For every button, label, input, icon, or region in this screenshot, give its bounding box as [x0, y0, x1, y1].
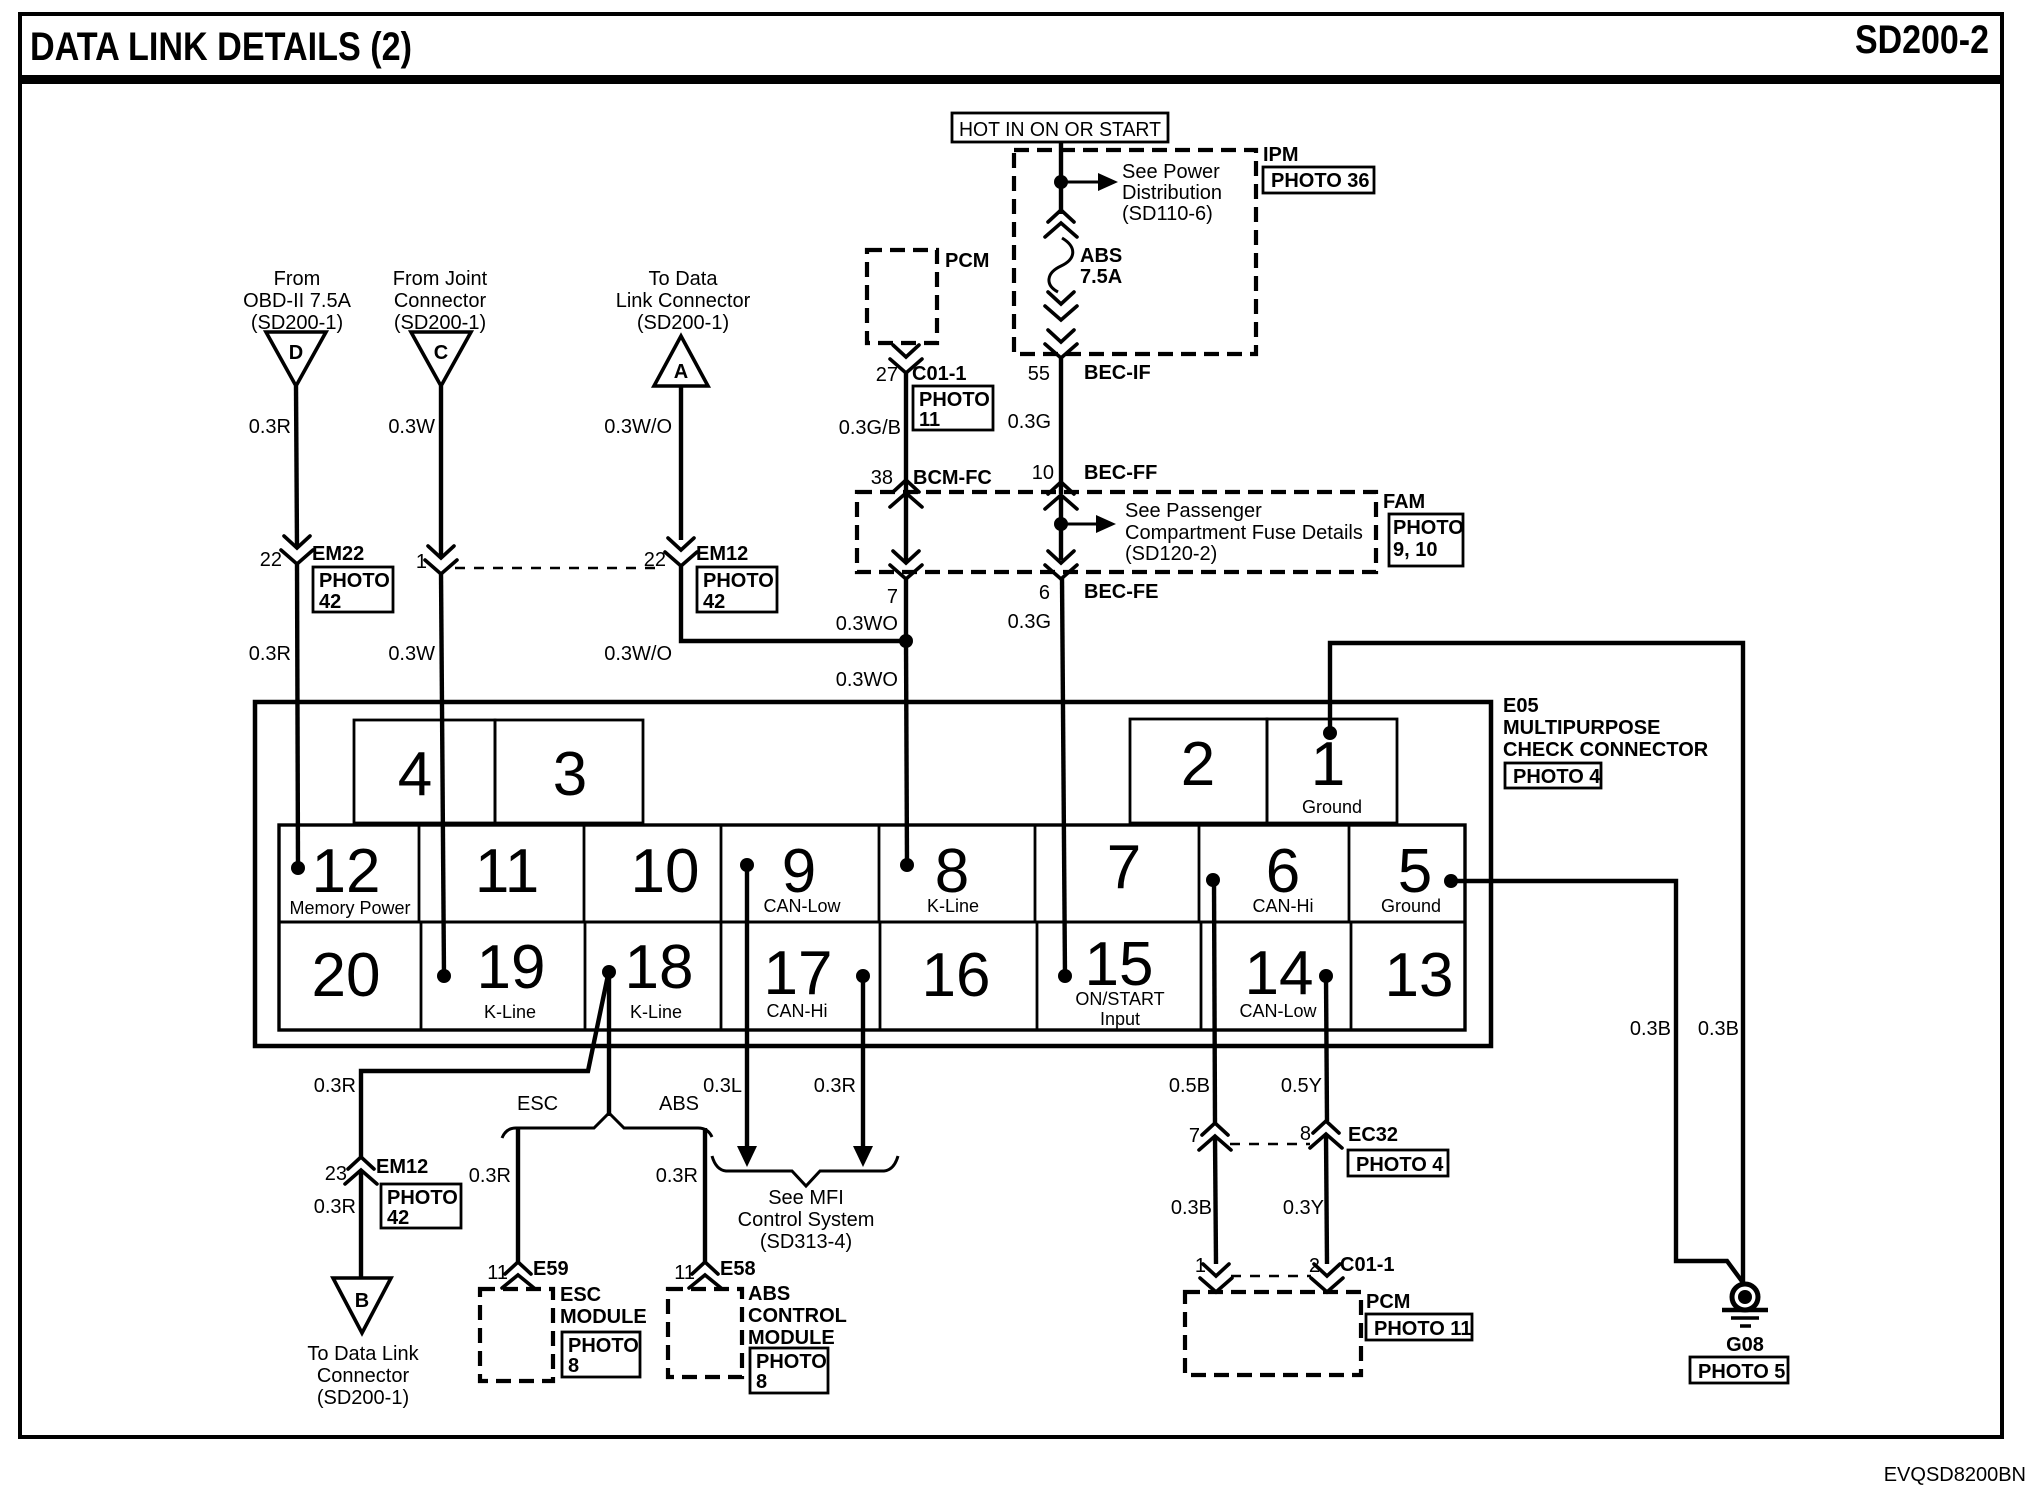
arrow to See Power Distribution — [1061, 173, 1118, 191]
svg-text:11: 11 — [919, 409, 940, 431]
label To Data Link Connector (SD200-1) — [616, 268, 751, 334]
svg-text:ON/START: ON/START — [1075, 989, 1164, 1009]
label From OBD-II 7.5A (SD200-1) — [243, 268, 351, 334]
wire through FAM — [904, 494, 908, 563]
svg-text:0.3B: 0.3B — [1630, 1018, 1671, 1040]
junction dot FAM — [1054, 517, 1068, 531]
grid dividers row 2 — [421, 922, 1351, 1030]
svg-text:K-Line: K-Line — [927, 896, 979, 916]
wire C01-1 to BCM-FC — [904, 371, 908, 492]
svg-text:Ground: Ground — [1381, 896, 1441, 916]
svg-text:C: C — [434, 342, 448, 364]
svg-text:ABS: ABS — [659, 1093, 699, 1115]
svg-text:0.3R: 0.3R — [249, 643, 291, 665]
svg-text:Link Connector: Link Connector — [616, 290, 751, 312]
wire ESC branch — [516, 1128, 520, 1262]
svg-text:To Data: To Data — [649, 268, 719, 290]
connector E58 pin 11 — [674, 1258, 755, 1288]
svg-text:0.3R: 0.3R — [814, 1075, 856, 1097]
svg-text:0.3Y: 0.3Y — [1283, 1197, 1324, 1219]
ESC MODULE dashed box E59 — [480, 1289, 553, 1381]
svg-text:16: 16 — [922, 941, 991, 1010]
svg-text:0.3WO: 0.3WO — [836, 613, 898, 635]
svg-text:PHOTO 5: PHOTO 5 — [1698, 1361, 1785, 1383]
svg-text:12: 12 — [312, 837, 381, 906]
svg-text:PCM: PCM — [1366, 1291, 1410, 1313]
dashed link C to EM12 — [455, 567, 662, 570]
pin dot 18 — [602, 965, 616, 979]
FAM dashed box — [857, 492, 1376, 572]
fuse top terminal — [1045, 210, 1077, 237]
svg-text:42: 42 — [703, 591, 725, 613]
svg-text:See Power: See Power — [1122, 161, 1220, 183]
svg-text:K-Line: K-Line — [484, 1002, 536, 1022]
connector BEC-IF pin 55 — [1028, 330, 1151, 385]
photo box PHOTO 8 (E59) — [562, 1332, 640, 1377]
svg-text:Memory Power: Memory Power — [289, 898, 410, 918]
svg-text:0.5Y: 0.5Y — [1281, 1075, 1322, 1097]
arrow to See Passenger — [1061, 515, 1116, 533]
connector C01-1 pin 2 — [1309, 1254, 1395, 1292]
photo box PHOTO 11 — [913, 386, 993, 431]
svg-text:0.3G: 0.3G — [1008, 411, 1051, 433]
svg-text:OBD-II 7.5A: OBD-II 7.5A — [243, 290, 351, 312]
label To Data Link Connector (SD200-1) — [307, 1343, 419, 1409]
label E05 MULTIPURPOSE CHECK CONNECTOR — [1503, 695, 1709, 761]
svg-text:7: 7 — [1189, 1125, 1200, 1147]
brace See MFI — [712, 1156, 898, 1186]
svg-text:13: 13 — [1385, 941, 1454, 1010]
svg-text:From: From — [274, 268, 321, 290]
svg-text:19: 19 — [477, 933, 546, 1002]
label ESC MODULE — [560, 1284, 647, 1328]
svg-text:Connector: Connector — [394, 290, 487, 312]
svg-text:IPM: IPM — [1263, 144, 1299, 166]
svg-text:FAM: FAM — [1383, 491, 1425, 513]
svg-text:7: 7 — [887, 586, 898, 608]
inner grid box — [279, 825, 1465, 1030]
wire A to EM12 — [679, 386, 683, 540]
svg-text:EM12: EM12 — [376, 1156, 428, 1178]
svg-text:DATA LINK DETAILS (2): DATA LINK DETAILS (2) — [30, 25, 412, 69]
wire ABS branch — [703, 1128, 707, 1262]
svg-text:9, 10: 9, 10 — [1393, 539, 1437, 561]
pin dot 6 — [1206, 873, 1220, 887]
svg-text:2: 2 — [1309, 1255, 1320, 1277]
svg-text:22: 22 — [260, 549, 282, 571]
photo box PHOTO 42 (EM12) — [697, 567, 777, 613]
connector BEC-FE pin 6 — [1039, 551, 1159, 604]
connector triangle C — [411, 332, 471, 386]
photo box PHOTO 4 (E05) — [1505, 763, 1601, 788]
note See Power Distribution (SD110-6) — [1122, 161, 1222, 225]
wire C to joint — [439, 386, 443, 558]
svg-text:PHOTO: PHOTO — [703, 570, 774, 592]
svg-text:BEC-FF: BEC-FF — [1084, 462, 1157, 484]
connector triangle B — [333, 1278, 391, 1333]
svg-text:42: 42 — [319, 591, 341, 613]
svg-text:8: 8 — [1300, 1123, 1311, 1145]
svg-text:14: 14 — [1245, 939, 1314, 1008]
svg-text:MULTIPURPOSE: MULTIPURPOSE — [1503, 717, 1660, 739]
svg-text:E59: E59 — [533, 1258, 569, 1280]
svg-text:ABS: ABS — [748, 1283, 790, 1305]
svg-text:CAN-Hi: CAN-Hi — [1253, 896, 1314, 916]
wire pin 17 CAN-Hi down — [861, 976, 865, 1150]
svg-text:(SD120-2): (SD120-2) — [1125, 543, 1217, 565]
wire pin 6 down — [1214, 880, 1215, 1123]
junction dot IPM — [1054, 175, 1068, 189]
photo box PHOTO 42 (EM12 23) — [381, 1184, 461, 1229]
connector EM12 pin 23 — [325, 1156, 429, 1185]
label ON/START Input (pin 15) — [1075, 989, 1164, 1029]
svg-text:C01-1: C01-1 — [912, 363, 966, 385]
connector triangle A — [654, 336, 708, 386]
svg-text:See MFI: See MFI — [768, 1187, 844, 1209]
svg-text:SD200-2: SD200-2 — [1855, 18, 1989, 62]
ABS CONTROL MODULE dashed box E58 — [668, 1289, 742, 1377]
svg-text:0.3WO: 0.3WO — [836, 669, 898, 691]
dashed link EC32 — [1230, 1143, 1310, 1146]
photo box PHOTO 42 (EM22) — [313, 567, 393, 613]
svg-text:C01-1: C01-1 — [1340, 1254, 1394, 1276]
svg-text:D: D — [289, 342, 303, 364]
svg-text:0.3R: 0.3R — [469, 1165, 511, 1187]
svg-text:7.5A: 7.5A — [1080, 266, 1122, 288]
wire pin 9 CAN-Low down — [745, 865, 749, 1150]
svg-text:1: 1 — [1311, 730, 1345, 799]
svg-text:0.3B: 0.3B — [1698, 1018, 1739, 1040]
photo box PHOTO 11 (PCM) — [1366, 1314, 1472, 1340]
pin dot 14 — [1319, 969, 1333, 983]
photo box PHOTO 5 (G08) — [1690, 1357, 1788, 1383]
svg-text:G08: G08 — [1726, 1334, 1764, 1356]
svg-text:11: 11 — [475, 837, 539, 906]
PCM dashed box (bottom) — [1185, 1292, 1361, 1375]
svg-text:10: 10 — [631, 837, 700, 906]
svg-text:0.3G: 0.3G — [1008, 611, 1051, 633]
fuse bottom terminal — [1045, 292, 1077, 320]
cavity box 4 — [354, 720, 495, 823]
photo box PHOTO 36 — [1263, 167, 1374, 193]
fuse label ABS 7.5A — [1080, 245, 1122, 288]
svg-text:3: 3 — [553, 740, 587, 809]
wire EC32-8 down — [1326, 1135, 1327, 1264]
svg-text:0.5B: 0.5B — [1169, 1075, 1210, 1097]
svg-text:1: 1 — [416, 551, 427, 573]
pin dot 19 — [437, 969, 451, 983]
svg-text:Connector: Connector — [317, 1365, 410, 1387]
svg-text:PHOTO 4: PHOTO 4 — [1513, 766, 1601, 788]
svg-text:22: 22 — [644, 549, 666, 571]
fuse ABS 7.5A body — [1049, 238, 1073, 292]
svg-text:0.3R: 0.3R — [656, 1165, 698, 1187]
wire junction to pin 8 — [906, 641, 907, 865]
photo box PHOTO 8 (E58) — [750, 1348, 828, 1393]
grid row divider — [279, 921, 1465, 924]
pin dot 17 — [856, 969, 870, 983]
svg-text:PHOTO: PHOTO — [1393, 517, 1464, 539]
connector EM12 pin 22 — [644, 538, 749, 571]
connector C01-1 pin 27 — [876, 345, 967, 386]
pin dot 5 — [1444, 874, 1458, 888]
cavity box 3 — [495, 720, 643, 823]
svg-text:11: 11 — [674, 1262, 695, 1284]
wire EM12 to junction — [681, 564, 906, 641]
svg-text:0.3R: 0.3R — [249, 416, 291, 438]
connector pin 1 — [416, 546, 457, 574]
connector BCM-FC pin 38 — [871, 467, 992, 507]
svg-text:CAN-Hi: CAN-Hi — [767, 1001, 828, 1021]
pin dot 9 — [740, 858, 754, 872]
svg-text:BEC-IF: BEC-IF — [1084, 362, 1151, 384]
svg-text:Ground: Ground — [1302, 797, 1362, 817]
svg-text:CONTROL: CONTROL — [748, 1305, 847, 1327]
svg-text:PCM: PCM — [945, 250, 989, 272]
junction dot EM12/BCM — [899, 634, 913, 648]
box HOT IN ON OR START — [952, 113, 1168, 142]
svg-text:38: 38 — [871, 467, 893, 489]
svg-text:PHOTO: PHOTO — [319, 570, 390, 592]
svg-text:0.3L: 0.3L — [703, 1075, 742, 1097]
svg-text:To Data Link: To Data Link — [307, 1343, 419, 1365]
svg-text:8: 8 — [756, 1371, 767, 1393]
svg-text:20: 20 — [312, 941, 381, 1010]
svg-text:(SD200-1): (SD200-1) — [317, 1387, 409, 1409]
svg-text:EVQSD8200BN: EVQSD8200BN — [1884, 1464, 2026, 1486]
E05 outer box — [255, 702, 1491, 1046]
wire pin 1 ground up and right — [1330, 643, 1743, 1283]
svg-text:8: 8 — [568, 1355, 579, 1377]
grid dividers row 1 — [419, 825, 1349, 922]
connector EC32 pin 7 — [1189, 1123, 1231, 1150]
svg-text:Control System: Control System — [738, 1209, 875, 1231]
svg-text:18: 18 — [625, 933, 694, 1002]
svg-text:BEC-FE: BEC-FE — [1084, 581, 1158, 603]
svg-text:0.3R: 0.3R — [314, 1196, 356, 1218]
svg-text:4: 4 — [398, 740, 432, 809]
note See MFI Control System (SD313-4) — [738, 1187, 875, 1253]
svg-text:PHOTO: PHOTO — [919, 389, 990, 411]
wire BEC-FE to pin 15 — [1062, 577, 1065, 976]
svg-text:Distribution: Distribution — [1122, 182, 1222, 204]
svg-text:2: 2 — [1181, 730, 1215, 799]
svg-text:PHOTO 4: PHOTO 4 — [1356, 1154, 1444, 1176]
wire HOT to junction — [1059, 141, 1063, 214]
svg-text:PHOTO: PHOTO — [568, 1335, 639, 1357]
svg-text:A: A — [674, 361, 688, 383]
wire BEC-IF to BEC-FF — [1059, 356, 1063, 494]
wire pin 14 down — [1326, 976, 1327, 1121]
svg-text:0.3R: 0.3R — [314, 1075, 356, 1097]
svg-text:(SD313-4): (SD313-4) — [760, 1231, 852, 1253]
svg-text:From Joint: From Joint — [393, 268, 488, 290]
connector BEC-FF pin 10 — [1032, 462, 1158, 509]
connector EC32 pin 8 — [1300, 1121, 1398, 1148]
svg-text:0.3W: 0.3W — [388, 643, 435, 665]
svg-text:CAN-Low: CAN-Low — [1239, 1001, 1317, 1021]
svg-text:42: 42 — [387, 1207, 409, 1229]
svg-text:K-Line: K-Line — [630, 1002, 682, 1022]
connector exit pin 7 — [887, 551, 922, 608]
wire pin 18 to brace — [607, 972, 611, 1116]
svg-text:BCM-FC: BCM-FC — [913, 467, 992, 489]
wire through FAM (BEC) — [1059, 496, 1063, 560]
svg-text:CAN-Low: CAN-Low — [763, 896, 841, 916]
svg-text:Input: Input — [1100, 1009, 1140, 1029]
connector triangle D — [266, 332, 326, 386]
svg-text:0.3W/O: 0.3W/O — [604, 416, 672, 438]
svg-text:ESC: ESC — [560, 1284, 601, 1306]
cavity box 2 — [1130, 719, 1267, 823]
brace ESC/ABS — [502, 1113, 712, 1138]
pin dot 15 — [1058, 969, 1072, 983]
svg-text:MODULE: MODULE — [560, 1306, 647, 1328]
svg-text:EM22: EM22 — [312, 543, 364, 565]
wire pin1 to pin 19 — [441, 572, 444, 976]
wire EM22 to pin 12 — [297, 562, 298, 868]
svg-text:7: 7 — [1107, 833, 1141, 902]
arrowhead MFI left — [737, 1146, 757, 1167]
svg-text:PHOTO 11: PHOTO 11 — [1374, 1318, 1471, 1340]
wire diagonal branch pin18 — [361, 975, 608, 1157]
svg-text:0.3B: 0.3B — [1171, 1197, 1212, 1219]
svg-text:ESC: ESC — [517, 1093, 558, 1115]
svg-text:ABS: ABS — [1080, 245, 1122, 267]
photo box PHOTO 9, 10 — [1389, 514, 1464, 566]
photo box PHOTO 4 (EC32) — [1348, 1150, 1448, 1176]
label From Joint Connector (SD200-1) — [393, 268, 488, 334]
svg-text:EC32: EC32 — [1348, 1124, 1398, 1146]
svg-text:0.3W/O: 0.3W/O — [604, 643, 672, 665]
wire to triangle B — [359, 1171, 363, 1278]
svg-text:55: 55 — [1028, 363, 1050, 385]
svg-text:MODULE: MODULE — [748, 1327, 835, 1349]
svg-text:PHOTO: PHOTO — [387, 1187, 458, 1209]
pin dot 12 — [291, 861, 305, 875]
svg-text:0.3G/B: 0.3G/B — [839, 417, 901, 439]
svg-text:CHECK CONNECTOR: CHECK CONNECTOR — [1503, 739, 1709, 761]
svg-text:23: 23 — [325, 1163, 347, 1185]
ground G08 symbol — [1722, 1284, 1768, 1326]
svg-text:See Passenger: See Passenger — [1125, 500, 1262, 522]
connector EM22 pin 22 — [260, 536, 365, 571]
svg-text:(SD110-6): (SD110-6) — [1122, 203, 1213, 225]
cavity box 1 — [1267, 719, 1397, 823]
IPM dashed box — [1014, 150, 1256, 354]
svg-text:B: B — [355, 1290, 369, 1312]
pin dot 8 — [900, 858, 914, 872]
PCM dashed box (top) — [867, 250, 937, 343]
svg-text:PHOTO 36: PHOTO 36 — [1271, 170, 1370, 192]
connector C01-1 pin 1 — [1195, 1255, 1232, 1292]
connector E59 pin 11 — [487, 1258, 568, 1288]
wire D to EM22 — [296, 386, 297, 548]
svg-text:6: 6 — [1039, 582, 1050, 604]
svg-text:EM12: EM12 — [696, 543, 748, 565]
note See Passenger Compartment Fuse Details (SD120-2) — [1125, 500, 1363, 565]
wire pin 5 ground right and down — [1451, 881, 1744, 1284]
wire pin7 to junction — [904, 577, 908, 641]
svg-text:10: 10 — [1032, 462, 1054, 484]
arrowhead MFI right — [853, 1146, 873, 1167]
svg-text:27: 27 — [876, 364, 898, 386]
svg-text:(SD200-1): (SD200-1) — [637, 312, 729, 334]
svg-text:E05: E05 — [1503, 695, 1539, 717]
svg-text:1: 1 — [1195, 1255, 1206, 1277]
pin dot 1 — [1323, 726, 1337, 740]
svg-text:HOT IN ON OR START: HOT IN ON OR START — [959, 119, 1161, 141]
svg-text:11: 11 — [487, 1262, 508, 1284]
svg-text:0.3W: 0.3W — [388, 416, 435, 438]
svg-text:Compartment Fuse Details: Compartment Fuse Details — [1125, 522, 1363, 544]
dashed link C01-1 — [1231, 1275, 1311, 1278]
svg-text:17: 17 — [764, 939, 833, 1008]
wire EC32-7 down — [1215, 1137, 1216, 1264]
svg-text:PHOTO: PHOTO — [756, 1351, 827, 1373]
label ABS CONTROL MODULE — [748, 1283, 847, 1349]
svg-text:E58: E58 — [720, 1258, 756, 1280]
